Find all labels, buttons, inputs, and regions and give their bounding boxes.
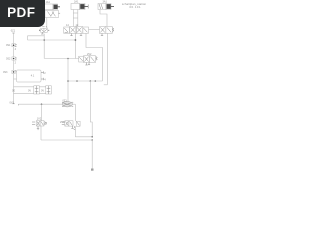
wire left supply column — [13, 33, 15, 104]
cylinder 3A1 — [98, 4, 114, 10]
svg-text:4: 4 — [44, 79, 46, 82]
svg-text:2V3: 2V3 — [60, 121, 65, 124]
component 0S3 on column — [12, 70, 17, 73]
svg-text:0S1: 0S1 — [6, 44, 11, 47]
svg-text:06.101: 06.101 — [130, 6, 142, 9]
svg-text:4.1: 4.1 — [31, 75, 35, 78]
node junction (68,81) — [67, 80, 69, 82]
wire valve 2V1 to valve 3V1 — [89, 29, 100, 31]
wire valve 1V2 out — [40, 126, 42, 140]
wire bottom distribution horizontal — [19, 103, 63, 105]
exhaust tick at column bottom — [12, 103, 14, 105]
node junction (68,58.5) — [67, 58, 69, 60]
node junction (44.2,40) — [43, 39, 45, 41]
component 0S1 on column — [12, 44, 17, 51]
valve 1V1 internals — [48, 12, 56, 17]
valve 2V1 (5/2) — [64, 27, 89, 36]
wire zigzag left vertical — [27, 36, 29, 40]
valve 1V1 body — [45, 11, 59, 18]
roller valve 1S1 cluster — [39, 26, 49, 34]
svg-text:2: 2 — [44, 72, 46, 75]
node top of left column — [12, 32, 14, 34]
wire valve 1V1 to roller valve — [46, 18, 48, 29]
title text block top right — [122, 3, 147, 9]
svg-text:0E: 0E — [12, 89, 15, 92]
wire oval to valve 2V3 — [74, 104, 76, 121]
wire valve 2V1 pilot drop — [74, 33, 76, 58]
svg-text:0S2: 0S2 — [6, 58, 11, 61]
node junction (75.4,40) — [75, 39, 77, 41]
node junction (41.5,104.2) — [41, 103, 43, 105]
wire cylinder 2A1 left port — [72, 10, 74, 27]
svg-text:1V2: 1V2 — [37, 118, 42, 121]
valve 2V3 (3/2) — [62, 121, 80, 130]
wire cylinder 2A1 right port — [77, 10, 79, 27]
air service unit 0Z1 — [62, 102, 75, 107]
wire zigzag lower horizontal — [28, 39, 76, 41]
component 0V3 — [34, 86, 40, 94]
node junction (77,81) — [76, 80, 78, 82]
svg-text:2: 2 — [15, 61, 17, 64]
wire yoke rung 2 — [73, 12, 78, 14]
cylinder 2A1 — [71, 4, 89, 10]
outlet connector end — [91, 169, 94, 171]
valve 2V2 (3/2) — [79, 56, 98, 65]
svg-text:2A1: 2A1 — [74, 1, 79, 4]
control box 0V2 — [17, 70, 42, 82]
wire main loop vertical left — [67, 59, 69, 102]
wire drop from loop with dogleg — [90, 81, 92, 137]
wire valve 2V3 out — [75, 126, 92, 137]
svg-text:0Z1: 0Z1 — [11, 30, 16, 33]
control box port stub lower — [41, 78, 44, 80]
svg-text:4: 4 — [15, 48, 17, 51]
svg-text:14: 14 — [66, 24, 69, 27]
node junction (95.3,81) — [95, 80, 97, 82]
svg-text:0S3: 0S3 — [3, 71, 8, 74]
exhaust end tick — [104, 84, 108, 86]
wire yoke under cylinder 2A1 — [73, 17, 78, 19]
svg-text:3A1: 3A1 — [103, 1, 108, 4]
component 0V4 — [46, 86, 52, 94]
svg-text:0V: 0V — [41, 89, 44, 92]
wire valve 2V1 right port down — [86, 33, 103, 81]
node junction (92.2,136.8) — [91, 136, 93, 138]
wire long drop to outlet — [91, 140, 93, 169]
component 0S2 on column — [12, 57, 17, 64]
valve 1V2 (3/2) — [32, 121, 46, 130]
control box port stub upper — [41, 71, 44, 73]
svg-text:0V: 0V — [28, 89, 31, 92]
node junction (92.2,140) — [91, 139, 93, 141]
wire middle horizontal to valve 2V2 pilot — [45, 58, 79, 60]
wire zigzag upper horizontal — [28, 35, 45, 37]
wire down to valve 1V2 — [41, 104, 43, 121]
valve 3V1 (3/2 spring return) — [100, 27, 114, 36]
wire cylinder 3A1 elbow — [100, 10, 107, 27]
wire column to control box — [14, 78, 17, 80]
node junction (90.3,81) — [90, 80, 92, 82]
svg-text:1A1: 1A1 — [46, 1, 51, 4]
wire valve 3V1 exhaust drop — [106, 33, 108, 84]
wire main loop bottom horizontal — [68, 80, 103, 82]
wire bottom rail — [41, 139, 92, 141]
PDF badge overlay — [0, 0, 45, 27]
cylinder 1A1 — [45, 4, 61, 10]
wire roller valve down-column — [43, 34, 45, 59]
wire pair manifold row — [14, 87, 52, 94]
